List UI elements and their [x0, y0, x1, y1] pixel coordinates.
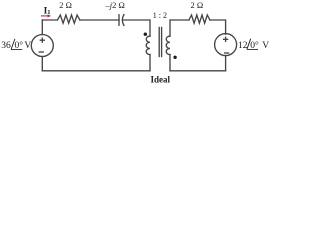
- dot secondary bottom: [173, 56, 176, 59]
- resistor R1 2ohm zigzag: [58, 15, 80, 23]
- resistor R2 2ohm zigzag: [189, 15, 210, 23]
- bottom rail right loop: [170, 70, 226, 72]
- svg-text:36: 36: [1, 41, 11, 51]
- svg-text:V: V: [24, 41, 31, 51]
- VS1 plus sign: [40, 38, 44, 42]
- capacitor C1 straight plate: [118, 15, 120, 25]
- underline for 12 angle: [247, 48, 258, 50]
- svg-text:1 : 2: 1 : 2: [153, 11, 167, 20]
- VS2 minus sign: [225, 52, 229, 54]
- right rail bottom: [225, 56, 227, 71]
- secondary bottom lead: [169, 55, 171, 71]
- capacitor C1 curved plate: [122, 15, 124, 26]
- left rail top: [41, 20, 43, 35]
- transformer core line right: [161, 28, 163, 57]
- secondary top lead: [170, 20, 189, 36]
- wire resistor to right source: [210, 20, 226, 34]
- VS2 plus sign: [224, 37, 228, 41]
- svg-text:2 Ω: 2 Ω: [191, 0, 204, 10]
- transformer primary winding: [146, 36, 150, 54]
- svg-text:I1: I1: [44, 6, 51, 16]
- voltage source VS2 circle: [215, 34, 237, 56]
- dot primary top: [144, 33, 147, 36]
- wire resistor to capacitor: [80, 19, 119, 21]
- voltage source VS1 circle: [31, 35, 53, 57]
- current arrow I1: [41, 14, 51, 17]
- wire capacitor to transformer primary: [123, 20, 150, 36]
- svg-text:Ideal: Ideal: [150, 75, 170, 85]
- wire top-left segment: [42, 19, 57, 21]
- bottom rail left loop: [42, 70, 150, 72]
- svg-text:12: 12: [238, 41, 248, 51]
- angle slash 12: [247, 39, 251, 50]
- transformer secondary winding: [166, 36, 170, 54]
- svg-text:2 Ω: 2 Ω: [59, 0, 72, 10]
- svg-text:V: V: [262, 41, 269, 51]
- svg-text:–j2 Ω: –j2 Ω: [105, 0, 125, 10]
- angle slash 36: [11, 39, 15, 50]
- left rail bottom: [41, 57, 43, 71]
- underline for 36 angle: [11, 49, 22, 51]
- primary bottom lead: [149, 55, 151, 71]
- VS1 minus sign: [39, 51, 43, 53]
- transformer core line left: [158, 28, 160, 57]
